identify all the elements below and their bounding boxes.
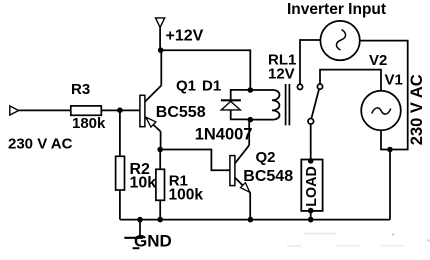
- node +12V rail junction: [158, 47, 164, 53]
- wire +12V rail to relay: [161, 50, 251, 90]
- wire R2 top lead: [119, 110, 121, 156]
- input terminal (230V AC sense input): [10, 106, 19, 115]
- wire Q1 emitter down: [160, 132, 162, 150]
- svg-text:R3: R3: [71, 81, 90, 98]
- node LOAD bottom: [308, 208, 314, 214]
- node relay bottom junction: [248, 117, 254, 123]
- svg-text:BC548: BC548: [243, 168, 293, 185]
- wire Q1 collector up: [160, 50, 162, 85]
- node R2 tap junction: [117, 107, 123, 113]
- svg-text:180k: 180k: [72, 115, 106, 132]
- AC source V1: [361, 91, 401, 131]
- node relay top junction: [248, 87, 254, 93]
- ground: [124, 238, 143, 248]
- resistor R1: [156, 169, 165, 200]
- node R1 bottom junction: [157, 217, 163, 223]
- wire D1 cathode: [231, 90, 251, 100]
- svg-text:230 V AC: 230 V AC: [408, 74, 426, 145]
- svg-text:LOAD: LOAD: [304, 166, 320, 207]
- AC source inverter input: [320, 21, 359, 60]
- transistor Q2: [230, 145, 250, 192]
- node LOAD rail junction: [308, 217, 314, 223]
- relay switch throw contact 2: [317, 84, 322, 89]
- load box: [301, 160, 322, 211]
- wire R1 top lead: [159, 150, 161, 170]
- svg-text:V2: V2: [369, 52, 387, 69]
- relay RL1 coil: [250, 90, 279, 120]
- wire LOAD bottom to rail: [310, 211, 312, 220]
- node Q2 emitter rail junction: [248, 217, 254, 223]
- wire inverter source to right rail: [360, 41, 408, 150]
- relay switch lever: [311, 90, 319, 119]
- svg-text:1N4007: 1N4007: [195, 125, 253, 143]
- resistor R2: [116, 156, 125, 190]
- svg-text:12V: 12V: [268, 65, 295, 82]
- svg-text:Q1: Q1: [176, 78, 196, 95]
- svg-text:10k: 10k: [130, 174, 157, 191]
- wire Q2 emitter down: [249, 192, 251, 219]
- wire bottom rail: [120, 219, 390, 221]
- svg-text:+12V: +12V: [166, 28, 204, 45]
- wire +12V terminal drop: [159, 27, 161, 50]
- node GND junction: [137, 217, 143, 223]
- svg-text:BC558: BC558: [156, 104, 206, 121]
- relay switch throw contact 1: [297, 84, 302, 89]
- svg-text:Q2: Q2: [256, 149, 276, 166]
- wire input to R3: [19, 109, 71, 111]
- node LOAD top: [308, 158, 314, 164]
- wire R2 bottom lead: [119, 190, 121, 220]
- svg-text:V1: V1: [385, 71, 403, 88]
- svg-text:230 V AC: 230 V AC: [8, 136, 73, 153]
- decorative faint marks: [287, 233, 430, 248]
- wire pole to LOAD: [310, 124, 312, 159]
- wire R1 bottom lead: [159, 200, 161, 219]
- transistor Q1: [140, 86, 161, 132]
- node V1 right-rail junction: [387, 147, 393, 153]
- relay RL1 core: [286, 84, 290, 125]
- svg-text:D1: D1: [202, 78, 221, 95]
- wire V1 bottom to rail corner: [381, 130, 390, 219]
- wire Q2 collector up: [248, 120, 250, 145]
- diode D1: [221, 100, 241, 110]
- wire node to Q2 base: [160, 150, 230, 171]
- power +12V terminal: [156, 18, 165, 28]
- node Q1 emitter / R1 / Q2 base junction: [157, 147, 163, 153]
- wire throw2 to V1 top: [320, 70, 381, 91]
- svg-text:GND: GND: [134, 232, 172, 251]
- wire GND drop: [139, 220, 141, 238]
- wire throw1 to inverter source: [300, 40, 320, 84]
- wire D1 anode: [231, 110, 251, 119]
- resistor R3: [71, 106, 102, 115]
- svg-text:100k: 100k: [169, 187, 204, 204]
- wire R3 to Q1 base: [101, 109, 140, 111]
- relay switch pole contact: [308, 119, 314, 125]
- svg-text:Inverter Input: Inverter Input: [287, 1, 386, 18]
